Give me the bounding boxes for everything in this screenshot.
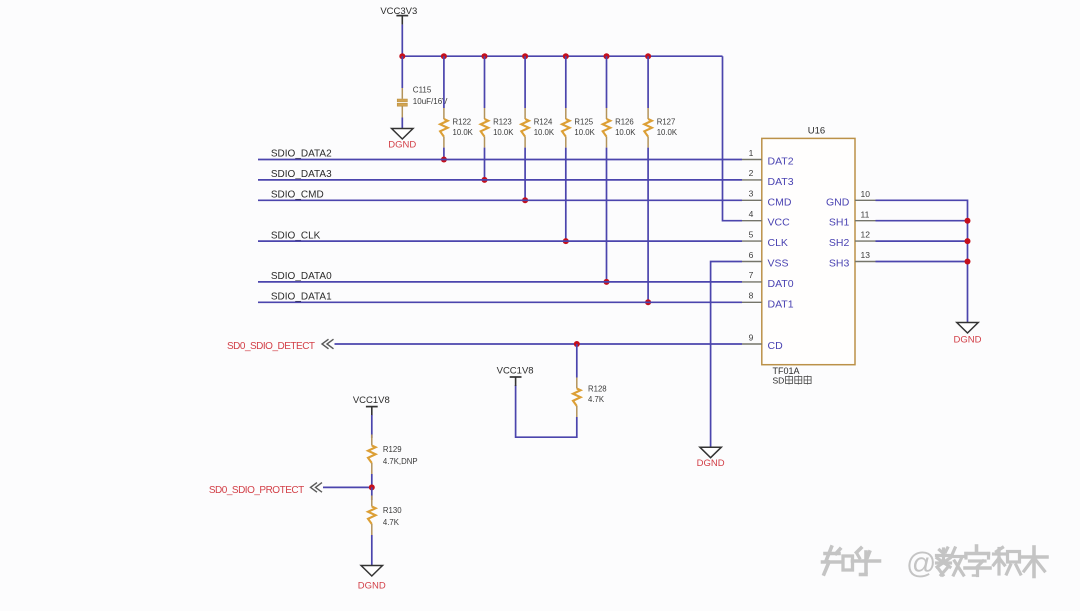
ground DGND right <box>954 323 982 346</box>
svg-text:VCC: VCC <box>768 217 791 229</box>
pin 6 VSS <box>742 250 789 270</box>
wire SH3 <box>876 261 968 263</box>
wire rail to R123 <box>484 56 486 108</box>
wire VCC1V8 to R129 <box>371 415 373 438</box>
wire SDIO_DATA3 <box>258 179 742 181</box>
svg-text:R124: R124 <box>534 117 553 126</box>
svg-text:SDIO_CMD: SDIO_CMD <box>271 190 324 201</box>
junction rail R123 <box>482 53 488 59</box>
svg-text:10.0K: 10.0K <box>453 128 474 137</box>
node SDIO_DATA3 <box>271 169 332 180</box>
svg-text:SH3: SH3 <box>829 258 850 270</box>
wire SH2 <box>876 240 968 242</box>
pin 11 SH1 <box>829 209 876 228</box>
svg-text:DAT2: DAT2 <box>768 156 794 168</box>
svg-text:SD0_SDIO_DETECT: SD0_SDIO_DETECT <box>227 341 315 352</box>
wire SH1 <box>876 220 968 222</box>
wire R124 to signal line <box>524 148 526 201</box>
svg-text:4.7K: 4.7K <box>383 518 400 527</box>
svg-text:CD: CD <box>768 340 784 352</box>
svg-text:DGND: DGND <box>697 458 725 469</box>
watermark zhihu @shuzijimu <box>823 546 1048 580</box>
pin 8 DAT1 <box>742 291 794 311</box>
label TF01A <box>773 366 800 376</box>
junction rail R125 <box>563 53 569 59</box>
junction protect node <box>369 484 375 490</box>
node SDIO_DATA0 <box>271 271 332 282</box>
svg-text:7: 7 <box>749 270 754 280</box>
node SDIO_CLK <box>271 230 321 241</box>
ground DGND under C115 <box>388 129 416 151</box>
svg-text:R130: R130 <box>383 506 402 515</box>
svg-text:9: 9 <box>749 332 754 342</box>
junction R125 on line <box>563 238 569 244</box>
resistor R127 <box>644 108 678 148</box>
wire VCC3V3 riser <box>401 25 403 57</box>
pin 13 SH3 <box>829 250 876 269</box>
port arrow DETECT <box>322 339 334 349</box>
svg-text:SD0_SDIO_PROTECT: SD0_SDIO_PROTECT <box>209 485 304 496</box>
svg-text:C115: C115 <box>413 86 432 95</box>
junction R123 on line <box>482 177 488 183</box>
junction rail R122 <box>441 53 447 59</box>
port arrow PROTECT <box>311 483 323 493</box>
resistor R128 <box>573 378 607 418</box>
wire R130 to ground <box>371 535 373 566</box>
svg-text:SH1: SH1 <box>829 217 850 229</box>
resistor R125 <box>562 108 596 148</box>
svg-text:VCC1V8: VCC1V8 <box>497 365 534 376</box>
junction SH3 <box>965 259 971 265</box>
wire R125 to signal line <box>565 148 567 242</box>
pin 3 CMD <box>742 189 792 209</box>
svg-text:SDIO_DATA3: SDIO_DATA3 <box>271 169 332 180</box>
wire GND pin 10 to ground bus <box>876 200 968 322</box>
node SDIO_DATA2 <box>271 149 332 160</box>
svg-text:11: 11 <box>861 209 870 219</box>
svg-text:4.7K,DNP: 4.7K,DNP <box>383 457 418 466</box>
wire rail to R127 <box>647 56 649 108</box>
pin 1 DAT2 <box>742 148 794 168</box>
svg-text:10: 10 <box>861 189 871 199</box>
wire rail riser to pin 4 <box>723 56 743 221</box>
wire R122 to signal line <box>443 148 445 160</box>
svg-text:R129: R129 <box>383 445 402 454</box>
power VCC3V3 <box>380 6 417 25</box>
svg-text:DGND: DGND <box>388 140 416 151</box>
svg-text:12: 12 <box>861 230 871 240</box>
svg-text:10uF/16V: 10uF/16V <box>413 97 448 106</box>
junction rail at VCC3V3 <box>399 53 405 59</box>
wire rail to C115 <box>401 56 403 88</box>
svg-text:DAT1: DAT1 <box>768 298 794 310</box>
wire protect node to R130 <box>371 487 373 500</box>
svg-text:2: 2 <box>749 168 754 178</box>
svg-text:10.0K: 10.0K <box>615 128 636 137</box>
junction R124 on line <box>522 197 528 203</box>
svg-text:3: 3 <box>749 189 754 199</box>
ground DGND bottom <box>358 566 386 592</box>
svg-text:10.0K: 10.0K <box>574 128 595 137</box>
wire SDIO_DATA0 <box>258 281 742 283</box>
wire C115 to ground <box>401 118 403 129</box>
wire R123 to signal line <box>484 148 486 180</box>
wire SDIO_CMD <box>258 199 742 201</box>
resistor R129 <box>368 435 418 475</box>
pin 4 VCC <box>742 209 790 229</box>
junction R127 on line <box>645 299 651 305</box>
wire detect to R128 <box>576 344 578 378</box>
power VCC1V8 left <box>353 395 390 415</box>
svg-text:R122: R122 <box>453 117 472 126</box>
svg-text:DAT3: DAT3 <box>768 176 794 188</box>
pin 12 SH2 <box>829 230 876 249</box>
wire SDIO_DATA2 <box>258 159 742 161</box>
junction SH2 <box>965 238 971 244</box>
junction R126 on line <box>604 279 610 285</box>
svg-text:DAT0: DAT0 <box>768 278 794 290</box>
resistor R124 <box>521 108 555 148</box>
junction rail R127 <box>645 53 651 59</box>
port SD0_SDIO_PROTECT <box>209 485 304 496</box>
wire rail to R122 <box>443 56 445 108</box>
wire top VCC rail <box>402 55 722 57</box>
port SD0_SDIO_DETECT <box>227 341 315 352</box>
svg-text:SH2: SH2 <box>829 237 850 249</box>
junction rail R124 <box>522 53 528 59</box>
svg-text:10.0K: 10.0K <box>534 128 555 137</box>
svg-text:VCC1V8: VCC1V8 <box>353 395 390 406</box>
pin 5 CLK <box>742 229 788 249</box>
wire rail to R125 <box>565 56 567 108</box>
junction detect R128 <box>574 341 580 347</box>
wire SD0_SDIO_PROTECT <box>323 486 372 488</box>
wire R127 to signal line <box>647 148 649 303</box>
pin 10 GND <box>826 189 876 208</box>
svg-text:SD: SD <box>773 376 785 386</box>
svg-text:GND: GND <box>826 196 850 208</box>
capacitor C115 <box>397 86 448 118</box>
svg-text:10.0K: 10.0K <box>493 128 514 137</box>
pin 2 DAT3 <box>742 168 794 188</box>
wire R126 to signal line <box>606 148 608 282</box>
svg-text:R127: R127 <box>657 117 676 126</box>
wire R128 to VCC1V8 <box>516 385 577 437</box>
node SDIO_DATA1 <box>271 292 332 303</box>
svg-text:VSS: VSS <box>768 258 789 270</box>
pin 7 DAT0 <box>742 270 794 290</box>
svg-text:6: 6 <box>749 250 754 260</box>
svg-text:TF01A: TF01A <box>773 366 800 376</box>
svg-text:R123: R123 <box>493 117 512 126</box>
svg-text:R125: R125 <box>574 117 593 126</box>
svg-text:R126: R126 <box>615 117 634 126</box>
svg-text:SDIO_DATA2: SDIO_DATA2 <box>271 149 332 160</box>
svg-text:DGND: DGND <box>358 581 386 592</box>
svg-text:@: @ <box>906 547 936 580</box>
svg-text:SDIO_DATA0: SDIO_DATA0 <box>271 271 332 282</box>
wire SDIO_CLK <box>258 240 742 242</box>
power VCC1V8 center <box>497 365 534 386</box>
svg-text:1: 1 <box>749 148 754 158</box>
svg-text:13: 13 <box>861 250 871 260</box>
svg-text:CLK: CLK <box>768 237 788 249</box>
junction rail R126 <box>604 53 610 59</box>
resistor R130 <box>368 496 402 536</box>
wire SD0_SDIO_DETECT to pin 9 <box>335 343 743 345</box>
svg-text:DGND: DGND <box>954 335 982 346</box>
resistor R123 <box>481 108 515 148</box>
ground DGND center <box>697 447 725 469</box>
pin 9 CD <box>742 332 783 352</box>
resistor R126 <box>603 108 637 148</box>
wire rail to R124 <box>524 56 526 108</box>
svg-text:4.7K: 4.7K <box>588 395 605 404</box>
wire SDIO_DATA1 <box>258 301 742 303</box>
svg-text:SDIO_DATA1: SDIO_DATA1 <box>271 292 332 303</box>
svg-text:8: 8 <box>749 291 754 301</box>
svg-text:R128: R128 <box>588 385 607 394</box>
svg-text:10.0K: 10.0K <box>657 128 678 137</box>
wire rail to R126 <box>606 56 608 108</box>
node SDIO_CMD <box>271 190 324 201</box>
op-amp U16 body <box>762 126 855 365</box>
svg-text:CMD: CMD <box>768 196 792 208</box>
svg-text:5: 5 <box>749 229 754 239</box>
wire VSS pin 6 to ground <box>711 262 742 448</box>
svg-text:4: 4 <box>749 209 754 219</box>
junction R122 on line <box>441 157 447 163</box>
svg-text:SDIO_CLK: SDIO_CLK <box>271 230 321 241</box>
wire R129 to protect node <box>371 474 373 487</box>
label SD card slot <box>773 376 812 386</box>
resistor R122 <box>440 108 474 148</box>
junction SH1 <box>965 218 971 224</box>
svg-text:U16: U16 <box>808 126 825 137</box>
